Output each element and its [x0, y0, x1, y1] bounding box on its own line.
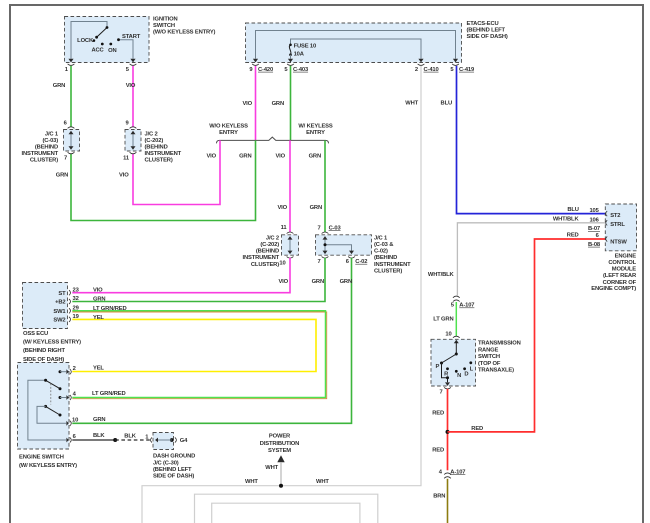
- svg-text:VIO: VIO: [275, 153, 285, 159]
- svg-text:2: 2: [73, 366, 76, 372]
- svg-text:VIO: VIO: [278, 279, 288, 285]
- wire GRN J/C1 pin6 C-02 to engine switch pin10: [72, 258, 352, 424]
- engine switch common rail to pin6: [28, 380, 66, 440]
- pin 10 connector: [66, 421, 68, 426]
- svg-text:GRN: GRN: [310, 205, 322, 211]
- svg-text:LOCK: LOCK: [77, 38, 94, 44]
- dash ground J/C (C-30) G4: [151, 433, 196, 480]
- J/C 1 (C-03) behind instrument cluster: [22, 120, 80, 163]
- wire P contact to pin 7: [442, 363, 448, 382]
- pin 5 C-403: [288, 59, 293, 63]
- contact N: [455, 370, 458, 373]
- svg-text:C-02: C-02: [355, 259, 367, 265]
- contact START: [117, 38, 120, 41]
- svg-text:GRN: GRN: [56, 173, 68, 179]
- svg-text:J/C 2: J/C 2: [266, 235, 279, 241]
- wire VIO ignition pin5 down to J/C2: [126, 66, 136, 127]
- svg-text:9: 9: [249, 67, 253, 73]
- svg-text:2: 2: [415, 67, 418, 73]
- svg-text:VIO: VIO: [93, 288, 103, 294]
- connector A-107 pin 4: [439, 469, 466, 478]
- wire GRN w/o keyless branch via J/C1: [56, 140, 256, 220]
- svg-text:9: 9: [125, 120, 129, 126]
- svg-text:SWITCH: SWITCH: [153, 23, 175, 29]
- svg-text:(BEHIND LEFT: (BEHIND LEFT: [467, 28, 506, 34]
- svg-text:ENTRY: ENTRY: [219, 130, 238, 136]
- wire BLU ETACS C-419 to ECM pin 105: [441, 66, 606, 214]
- svg-text:CONTROL: CONTROL: [608, 260, 636, 266]
- svg-text:+B2: +B2: [55, 300, 65, 306]
- wire VIO w/ keyless branch down to J/C2 (C-202): [275, 140, 290, 232]
- wire VIO J/C2 pin10 to OSS ECU ST: [72, 258, 290, 293]
- svg-text:TRANSAXLE): TRANSAXLE): [478, 368, 514, 374]
- contact pin 2: [59, 370, 62, 373]
- svg-text:1: 1: [65, 67, 69, 73]
- svg-text:J/C 1: J/C 1: [45, 131, 59, 137]
- fuse FUSE 10 10A: [289, 44, 292, 47]
- svg-text:CLUSTER): CLUSTER): [145, 158, 173, 164]
- svg-text:NTSW: NTSW: [610, 240, 627, 246]
- svg-text:VIO: VIO: [126, 83, 136, 89]
- pin 19 SW2: [69, 317, 71, 322]
- svg-text:RED: RED: [567, 232, 579, 238]
- wire WHT branch loop 3: [212, 503, 360, 523]
- svg-text:GRN: GRN: [93, 297, 105, 303]
- svg-text:7: 7: [439, 390, 442, 396]
- svg-text:FUSE 10: FUSE 10: [294, 44, 316, 50]
- svg-text:(C-202): (C-202): [260, 242, 279, 248]
- svg-text:10: 10: [445, 332, 451, 338]
- svg-text:(LEFT REAR: (LEFT REAR: [603, 273, 637, 279]
- svg-text:WHT/BLK: WHT/BLK: [428, 272, 455, 278]
- svg-text:GRN: GRN: [312, 279, 324, 285]
- svg-text:OSS ECU: OSS ECU: [23, 331, 48, 337]
- svg-text:GRN: GRN: [340, 279, 352, 285]
- svg-text:DASH GROUND: DASH GROUND: [153, 454, 195, 460]
- svg-text:YEL: YEL: [93, 365, 104, 371]
- svg-text:5: 5: [451, 303, 455, 309]
- svg-text:ST2: ST2: [610, 213, 620, 219]
- OSS ECU (W/ keyless entry): [23, 283, 127, 363]
- svg-text:29: 29: [73, 306, 80, 312]
- svg-text:L: L: [470, 367, 474, 373]
- engine switch (W/ keyless entry): [18, 363, 126, 470]
- svg-text:N: N: [457, 373, 461, 379]
- svg-text:(C-03): (C-03): [42, 138, 58, 144]
- svg-text:ACC: ACC: [91, 48, 104, 54]
- svg-text:G4: G4: [180, 438, 188, 444]
- svg-text:WHT: WHT: [405, 101, 418, 107]
- svg-text:WHT: WHT: [316, 479, 329, 485]
- svg-text:10: 10: [279, 260, 285, 266]
- svg-text:6: 6: [64, 120, 68, 126]
- contact R: [446, 367, 449, 370]
- svg-text:CORNER OF: CORNER OF: [603, 280, 637, 286]
- svg-text:C-419: C-419: [459, 67, 475, 73]
- pin 6 connector: [66, 438, 68, 443]
- svg-text:TRANSMISSION: TRANSMISSION: [478, 341, 521, 347]
- pin 4 connector: [66, 395, 68, 400]
- wire RED branch to ECM pin6 NTSW: [448, 232, 606, 432]
- svg-text:WHT/BLK: WHT/BLK: [553, 217, 580, 223]
- wire ignition internal START to pin 5: [119, 40, 134, 59]
- pin 2 connector: [66, 369, 68, 374]
- svg-text:5: 5: [450, 67, 454, 73]
- svg-text:ENGINE: ENGINE: [615, 254, 637, 260]
- wire GRN ignition pin1 down to J/C1: [53, 66, 71, 127]
- svg-text:D: D: [464, 372, 468, 378]
- svg-text:VIO: VIO: [277, 205, 287, 211]
- svg-text:GRN: GRN: [53, 83, 65, 89]
- ETACS-ECU: [246, 21, 508, 73]
- svg-text:LT GRN: LT GRN: [433, 316, 453, 322]
- J/C 2 (C-202) behind instrument cluster: [123, 120, 182, 163]
- connector A-107 pin 5: [451, 296, 475, 308]
- engine switch lever 1: [46, 380, 60, 388]
- wire VIO ETACS C-420 down to harness split: [242, 66, 255, 140]
- switch common from pin 10: [455, 342, 457, 355]
- svg-text:ENGINE COMPT): ENGINE COMPT): [591, 286, 636, 292]
- svg-text:6: 6: [73, 434, 77, 440]
- pin 105 ST2: [606, 211, 608, 216]
- engine switch lever 2: [46, 406, 60, 415]
- wire WHT ETACS C-410 down to power distribution junction: [142, 66, 421, 523]
- J/C 2 (C-202) second, behind instrument cluster: [243, 225, 299, 268]
- svg-text:GRN: GRN: [309, 153, 321, 159]
- svg-text:19: 19: [73, 314, 80, 320]
- svg-text:ON: ON: [108, 48, 116, 54]
- contact L: [469, 361, 472, 364]
- lever 2 rail to pin 10: [37, 406, 66, 423]
- transmission range switch: [431, 332, 521, 396]
- wire VIO w/o keyless branch via J/C2: [119, 140, 220, 204]
- svg-text:C-403: C-403: [293, 67, 309, 73]
- pin 6 NTSW B-08: [606, 236, 608, 241]
- power distribution system reference: [245, 433, 329, 487]
- svg-text:SIDE OF DASH): SIDE OF DASH): [467, 34, 508, 40]
- svg-text:WHT: WHT: [265, 465, 278, 471]
- svg-text:ENTRY: ENTRY: [306, 130, 325, 136]
- junction RED: [446, 430, 450, 434]
- svg-text:ST: ST: [58, 291, 66, 297]
- svg-text:5: 5: [284, 67, 288, 73]
- svg-text:SW1: SW1: [53, 309, 66, 315]
- svg-text:DISTRIBUTION: DISTRIBUTION: [260, 441, 299, 447]
- ignition rotor lever: [97, 28, 107, 38]
- svg-text:(BEHIND: (BEHIND: [256, 249, 279, 255]
- engine control module: [553, 204, 637, 292]
- svg-text:BLK: BLK: [93, 433, 105, 439]
- wire ignition internal LOCK feed to pin 1: [71, 22, 107, 59]
- svg-text:START: START: [122, 34, 141, 40]
- contact D: [463, 367, 466, 370]
- pin 32 +B2: [69, 299, 71, 304]
- wire GRN w/ keyless branch down to J/C1 (C-03): [309, 140, 325, 232]
- svg-text:SWITCH: SWITCH: [478, 354, 500, 360]
- pin 5 C-419: [453, 59, 458, 63]
- svg-text:4: 4: [439, 469, 443, 475]
- svg-text:7: 7: [64, 156, 67, 162]
- svg-text:A-107: A-107: [459, 303, 474, 309]
- svg-text:ENGINE SWITCH: ENGINE SWITCH: [19, 455, 64, 461]
- svg-text:J/C 2: J/C 2: [145, 131, 158, 137]
- svg-text:W/O KEYLESS: W/O KEYLESS: [209, 124, 248, 130]
- wire GRN J/C1 pin7 to OSS ECU +B2: [72, 258, 325, 302]
- svg-text:RANGE: RANGE: [478, 347, 498, 353]
- wire LT GRN A-107 to transmission range switch pin10: [433, 302, 456, 336]
- wire WHT junction up to power distribution: [280, 462, 282, 486]
- svg-text:VIO: VIO: [119, 173, 129, 179]
- svg-text:C-03: C-03: [329, 225, 342, 231]
- svg-text:P: P: [435, 364, 439, 370]
- svg-text:C-410: C-410: [424, 67, 439, 73]
- wire ETACS internal bus pin9 to pin5 C-419: [256, 31, 456, 59]
- svg-text:(W/ KEYLESS ENTRY): (W/ KEYLESS ENTRY): [23, 340, 81, 346]
- svg-text:LT GRN/RED: LT GRN/RED: [92, 391, 126, 397]
- svg-text:YEL: YEL: [93, 315, 104, 321]
- ignition switch (W/O keyless entry): [65, 17, 216, 73]
- svg-text:SIDE OF DASH): SIDE OF DASH): [23, 357, 64, 363]
- svg-text:BLU: BLU: [441, 101, 452, 107]
- wire WHT branch loop 2: [195, 494, 378, 523]
- svg-text:(C-202): (C-202): [145, 138, 164, 144]
- pin 7 connector: [445, 382, 450, 386]
- svg-text:A-107: A-107: [450, 469, 465, 475]
- wire BRN A-107 down off page: [433, 479, 447, 523]
- svg-text:VIO: VIO: [206, 153, 216, 159]
- svg-text:SIDE OF DASH): SIDE OF DASH): [153, 474, 194, 480]
- svg-text:STRL: STRL: [610, 222, 625, 228]
- pin 29 SW1: [69, 308, 71, 313]
- wire RED trs pin7 down to A-107: [432, 389, 447, 471]
- pin 2 C-410: [418, 59, 423, 63]
- svg-text:105: 105: [589, 208, 599, 214]
- J/C 1 (C-03 &amp; C-02) behind instrument cluster: [316, 225, 412, 274]
- svg-text:W/ KEYLESS: W/ KEYLESS: [298, 124, 333, 130]
- svg-text:(W/ KEYLESS ENTRY): (W/ KEYLESS ENTRY): [19, 463, 77, 469]
- svg-text:J/C 1: J/C 1: [374, 235, 388, 241]
- svg-text:32: 32: [73, 296, 79, 302]
- contact ACC: [101, 43, 104, 46]
- mechanical link: [50, 384, 52, 405]
- wire GRN ETACS C-403 down to harness split: [272, 66, 291, 140]
- svg-text:BLU: BLU: [567, 207, 578, 213]
- svg-text:SW2: SW2: [53, 318, 65, 324]
- svg-text:(TOP OF: (TOP OF: [478, 361, 501, 367]
- svg-text:RED: RED: [432, 411, 444, 417]
- svg-text:BRN: BRN: [433, 493, 445, 499]
- svg-text:IGNITION: IGNITION: [153, 17, 178, 23]
- svg-text:11: 11: [281, 225, 288, 231]
- wire ETACS internal fuse feed from pin2 C-410: [291, 39, 422, 59]
- svg-text:INSTRUMENT: INSTRUMENT: [243, 255, 280, 261]
- svg-text:(BEHIND: (BEHIND: [35, 145, 58, 151]
- svg-text:POWER: POWER: [269, 433, 291, 439]
- svg-text:(C-03 &: (C-03 &: [374, 242, 393, 248]
- wire YEL OSS SW2 to engine switch pin2: [72, 319, 316, 371]
- svg-text:11: 11: [123, 156, 130, 162]
- junction WHT: [279, 484, 283, 488]
- svg-text:7: 7: [317, 259, 320, 265]
- svg-text:VIO: VIO: [242, 101, 252, 107]
- svg-text:GRN: GRN: [239, 153, 251, 159]
- svg-text:(W/O KEYLESS ENTRY): (W/O KEYLESS ENTRY): [153, 30, 216, 36]
- svg-text:GRN: GRN: [93, 417, 105, 423]
- svg-text:106: 106: [589, 218, 599, 224]
- svg-text:CLUSTER): CLUSTER): [30, 158, 58, 164]
- svg-text:10: 10: [72, 418, 78, 424]
- range selector lever in P: [442, 354, 457, 363]
- contact LOCK: [93, 39, 96, 42]
- svg-text:J/C (C-30): J/C (C-30): [153, 460, 179, 466]
- svg-text:GRN: GRN: [272, 101, 284, 107]
- svg-text:7: 7: [317, 225, 320, 231]
- svg-text:CLUSTER): CLUSTER): [374, 268, 402, 274]
- pin 9 C-420: [253, 59, 258, 63]
- harness alternative split brace: [209, 124, 333, 144]
- svg-text:LT GRN/RED: LT GRN/RED: [93, 306, 127, 312]
- svg-text:C-02): C-02): [374, 249, 388, 255]
- wire LT GRN/RED OSS SW1 to engine switch pin4 (red tracer): [72, 312, 326, 399]
- svg-text:INSTRUMENT: INSTRUMENT: [145, 151, 182, 157]
- wire BLK engine switch pin6 to dash ground: [72, 433, 150, 442]
- svg-text:(BEHIND: (BEHIND: [374, 255, 397, 261]
- svg-text:B-08: B-08: [588, 242, 601, 248]
- svg-text:MODULE: MODULE: [612, 267, 637, 273]
- svg-text:RED: RED: [432, 447, 444, 453]
- svg-text:RED: RED: [471, 426, 483, 432]
- svg-text:C-420: C-420: [258, 67, 273, 73]
- pin 5 connector: [130, 59, 135, 63]
- svg-text:SYSTEM: SYSTEM: [268, 448, 291, 454]
- svg-text:10A: 10A: [294, 52, 305, 58]
- wire LT GRN/RED OSS SW1 to engine switch pin4: [72, 311, 325, 398]
- pin 1 connector: [68, 59, 73, 63]
- svg-text:23: 23: [73, 287, 80, 293]
- svg-text:5: 5: [126, 67, 130, 73]
- svg-text:INSTRUMENT: INSTRUMENT: [22, 151, 59, 157]
- contact pin 4: [59, 396, 62, 399]
- svg-text:INSTRUMENT: INSTRUMENT: [374, 262, 411, 268]
- wire WHT/BLK ECM pin106 to connector A-107: [428, 223, 605, 296]
- pin 23 ST: [69, 290, 71, 295]
- svg-text:(BEHIND: (BEHIND: [145, 145, 168, 151]
- svg-text:B-07: B-07: [588, 226, 600, 232]
- svg-text:BLK: BLK: [124, 433, 136, 439]
- svg-text:(BEHIND RIGHT: (BEHIND RIGHT: [23, 348, 65, 354]
- svg-text:6: 6: [346, 259, 350, 265]
- svg-text:CLUSTER): CLUSTER): [251, 262, 279, 268]
- svg-text:WHT: WHT: [245, 479, 258, 485]
- svg-text:ETACS-ECU: ETACS-ECU: [467, 21, 499, 27]
- contact ON: [109, 43, 112, 46]
- pin 106 STRL B-07: [606, 220, 608, 225]
- svg-text:(BEHIND LEFT: (BEHIND LEFT: [153, 467, 192, 473]
